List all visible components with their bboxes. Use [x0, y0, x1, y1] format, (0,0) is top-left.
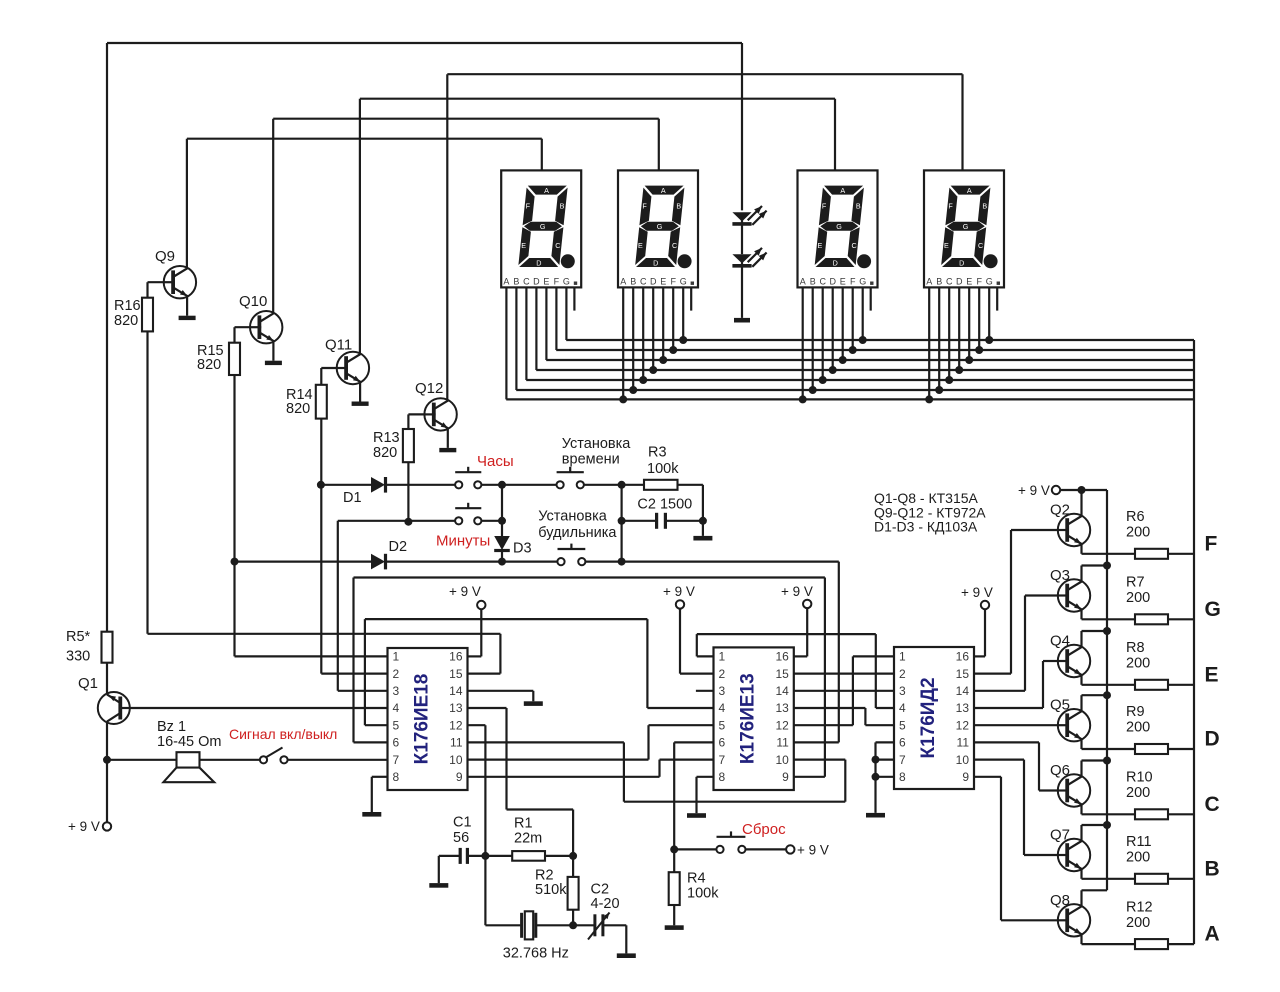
svg-text:D2: D2: [389, 539, 408, 555]
svg-text:+ 9 V: + 9 V: [781, 584, 813, 599]
svg-text:Bz 1: Bz 1: [157, 719, 186, 735]
svg-text:Q11: Q11: [325, 337, 352, 354]
svg-text:B: B: [810, 276, 816, 286]
svg-text:6: 6: [899, 736, 906, 750]
svg-text:10: 10: [449, 753, 463, 767]
svg-text:Q9: Q9: [155, 248, 175, 265]
svg-text:9: 9: [962, 770, 969, 784]
svg-text:22m: 22m: [514, 831, 542, 847]
svg-text:C: C: [640, 276, 647, 286]
svg-text:11: 11: [957, 736, 970, 750]
svg-text:3: 3: [393, 684, 400, 698]
svg-text:C: C: [672, 241, 677, 250]
svg-text:2: 2: [393, 667, 400, 681]
svg-text:Установка: Установка: [538, 509, 607, 525]
svg-text:A: A: [926, 276, 932, 286]
svg-text:D: D: [536, 258, 541, 267]
svg-text:D: D: [833, 258, 838, 267]
svg-text:G: G: [540, 222, 546, 231]
svg-text:R3: R3: [648, 445, 667, 461]
svg-text:56: 56: [453, 830, 469, 846]
svg-text:R11: R11: [1126, 834, 1152, 850]
svg-text:R6: R6: [1126, 509, 1145, 525]
svg-text:7: 7: [719, 753, 726, 767]
svg-text:+ 9 V: + 9 V: [797, 843, 829, 858]
svg-text:B: B: [560, 202, 565, 211]
svg-text:E: E: [638, 241, 643, 250]
svg-text:G: G: [836, 222, 842, 231]
svg-text:13: 13: [956, 701, 970, 715]
svg-text:10: 10: [775, 753, 789, 767]
svg-text:F: F: [976, 276, 982, 286]
svg-text:7: 7: [899, 753, 906, 767]
svg-text:15: 15: [449, 667, 463, 681]
svg-text:E: E: [660, 276, 666, 286]
svg-text:D: D: [650, 276, 657, 286]
svg-text:32.768 Hz: 32.768 Hz: [503, 946, 569, 962]
svg-text:G: G: [986, 276, 993, 286]
svg-text:5: 5: [899, 718, 906, 732]
svg-text:G: G: [680, 276, 687, 286]
svg-text:B: B: [513, 276, 519, 286]
svg-text:C: C: [946, 276, 953, 286]
svg-text:Установка: Установка: [562, 436, 631, 452]
svg-text:2: 2: [719, 667, 726, 681]
svg-text:A: A: [840, 186, 845, 195]
svg-text:К176ИЕ18: К176ИЕ18: [412, 674, 433, 765]
svg-text:G: G: [657, 222, 663, 231]
svg-text:9: 9: [456, 770, 463, 784]
svg-text:R4: R4: [687, 871, 706, 887]
svg-text:510k: 510k: [535, 882, 567, 898]
svg-text:1: 1: [719, 650, 726, 664]
svg-text:D: D: [533, 276, 540, 286]
svg-text:E: E: [966, 276, 972, 286]
svg-text:5: 5: [719, 718, 726, 732]
svg-text:100k: 100k: [647, 461, 679, 477]
svg-text:820: 820: [114, 313, 138, 329]
svg-text:C: C: [555, 241, 560, 250]
svg-text:330: 330: [66, 649, 90, 665]
svg-text:F: F: [1205, 532, 1218, 555]
svg-text:R9: R9: [1126, 704, 1145, 720]
svg-text:12: 12: [775, 718, 789, 732]
svg-text:Q10: Q10: [239, 293, 267, 310]
svg-text:A: A: [503, 276, 509, 286]
svg-text:Q4: Q4: [1050, 633, 1070, 650]
svg-text:C: C: [978, 241, 983, 250]
svg-text:E: E: [543, 276, 549, 286]
svg-text:1: 1: [393, 650, 400, 664]
svg-text:15: 15: [956, 667, 970, 681]
svg-text:A: A: [620, 276, 626, 286]
svg-text:F: F: [670, 276, 676, 286]
svg-text:R13: R13: [373, 430, 400, 446]
svg-text:E: E: [944, 241, 949, 250]
svg-text:8: 8: [393, 770, 400, 784]
svg-text:+ 9 V: + 9 V: [663, 584, 695, 599]
svg-text:времени: времени: [562, 452, 620, 468]
svg-text:F: F: [526, 202, 531, 211]
svg-text:3: 3: [719, 684, 726, 698]
svg-text:R12: R12: [1126, 899, 1153, 915]
svg-text:A: A: [661, 186, 666, 195]
svg-text:15: 15: [775, 667, 789, 681]
svg-text:5: 5: [393, 718, 400, 732]
svg-text:820: 820: [373, 445, 397, 461]
svg-text:R7: R7: [1126, 575, 1145, 591]
svg-text:C: C: [819, 276, 826, 286]
svg-text:E: E: [521, 241, 526, 250]
svg-text:Минуты: Минуты: [436, 533, 490, 550]
svg-text:R10: R10: [1126, 770, 1153, 786]
svg-text:D: D: [956, 276, 963, 286]
svg-text:G: G: [859, 276, 866, 286]
svg-text:3: 3: [899, 684, 906, 698]
svg-text:4: 4: [393, 701, 400, 715]
svg-text:13: 13: [449, 701, 463, 715]
svg-text:6: 6: [393, 736, 400, 750]
svg-text:К176ИЕ13: К176ИЕ13: [738, 673, 759, 764]
svg-text:4: 4: [899, 701, 906, 715]
svg-text:200: 200: [1126, 720, 1150, 736]
svg-text:8: 8: [719, 770, 726, 784]
svg-text:14: 14: [775, 684, 789, 698]
svg-text:12: 12: [449, 718, 463, 732]
svg-text:F: F: [850, 276, 856, 286]
svg-text:11: 11: [776, 736, 789, 750]
svg-text:820: 820: [286, 401, 310, 417]
svg-text:Q6: Q6: [1050, 762, 1070, 779]
svg-text:12: 12: [956, 718, 970, 732]
svg-text:D1: D1: [343, 490, 362, 506]
svg-text:Сброс: Сброс: [742, 821, 786, 838]
svg-text:Часы: Часы: [477, 453, 514, 470]
svg-text:E: E: [818, 241, 823, 250]
svg-text:F: F: [642, 202, 647, 211]
svg-text:D1-D3 - КД103А: D1-D3 - КД103А: [874, 519, 978, 535]
svg-text:R8: R8: [1126, 640, 1145, 656]
svg-text:11: 11: [450, 736, 463, 750]
svg-text:Q5: Q5: [1050, 697, 1070, 714]
svg-text:7: 7: [393, 753, 400, 767]
svg-text:4: 4: [719, 701, 726, 715]
svg-text:B: B: [856, 202, 861, 211]
svg-text:200: 200: [1126, 850, 1150, 866]
svg-text:1: 1: [899, 650, 906, 664]
svg-text:+ 9 V: + 9 V: [449, 584, 481, 599]
svg-text:F: F: [948, 202, 953, 211]
svg-text:B: B: [676, 202, 681, 211]
svg-text:6: 6: [719, 736, 726, 750]
svg-text:9: 9: [782, 770, 789, 784]
svg-text:10: 10: [956, 753, 970, 767]
svg-text:D: D: [829, 276, 836, 286]
svg-text:Q12: Q12: [415, 380, 443, 397]
svg-text:R1: R1: [514, 816, 533, 832]
svg-text:Q2: Q2: [1050, 502, 1070, 519]
svg-text:16: 16: [956, 650, 970, 664]
svg-text:2: 2: [899, 667, 906, 681]
svg-text:E: E: [840, 276, 846, 286]
svg-text:16: 16: [449, 650, 463, 664]
svg-text:+ 9 V: + 9 V: [1018, 483, 1050, 498]
svg-text:D: D: [959, 258, 964, 267]
svg-text:C2 1500: C2 1500: [637, 497, 692, 513]
svg-text:16: 16: [775, 650, 789, 664]
svg-text:+ 9 V: + 9 V: [961, 585, 993, 600]
svg-text:R5*: R5*: [66, 629, 91, 645]
svg-text:B: B: [936, 276, 942, 286]
svg-text:R16: R16: [114, 298, 141, 314]
svg-text:К176ИД2: К176ИД2: [918, 677, 939, 758]
svg-text:будильника: будильника: [538, 525, 617, 541]
svg-text:D: D: [1205, 728, 1220, 751]
svg-text:B: B: [1205, 857, 1220, 880]
svg-text:G: G: [1205, 598, 1221, 621]
svg-text:D3: D3: [513, 541, 532, 557]
svg-text:A: A: [967, 186, 972, 195]
svg-text:200: 200: [1126, 915, 1150, 931]
svg-text:G: G: [563, 276, 570, 286]
svg-text:14: 14: [956, 684, 970, 698]
svg-text:14: 14: [449, 684, 463, 698]
svg-text:B: B: [630, 276, 636, 286]
svg-text:C: C: [523, 276, 530, 286]
svg-text:200: 200: [1126, 525, 1150, 541]
svg-text:Q1: Q1: [78, 675, 98, 692]
svg-text:A: A: [1205, 923, 1220, 946]
svg-text:Q7: Q7: [1050, 827, 1070, 844]
svg-text:200: 200: [1126, 656, 1150, 672]
svg-text:100k: 100k: [687, 886, 719, 902]
svg-text:G: G: [963, 222, 969, 231]
svg-text:820: 820: [197, 357, 221, 373]
svg-text:Q3: Q3: [1050, 567, 1070, 584]
svg-text:C: C: [1205, 793, 1220, 816]
svg-text:200: 200: [1126, 590, 1150, 606]
svg-text:F: F: [554, 276, 560, 286]
svg-text:13: 13: [775, 701, 789, 715]
svg-text:E: E: [1205, 663, 1219, 686]
svg-text:Q8: Q8: [1050, 892, 1070, 909]
svg-text:C: C: [851, 241, 856, 250]
svg-text:A: A: [544, 186, 549, 195]
svg-text:C1: C1: [453, 815, 472, 831]
svg-text:+ 9 V: + 9 V: [68, 819, 100, 834]
svg-text:B: B: [982, 202, 987, 211]
svg-text:D: D: [653, 258, 658, 267]
svg-text:8: 8: [899, 770, 906, 784]
svg-text:200: 200: [1126, 785, 1150, 801]
svg-text:A: A: [800, 276, 806, 286]
svg-text:4-20: 4-20: [591, 896, 620, 912]
svg-text:16-45 Om: 16-45 Om: [157, 734, 221, 750]
svg-text:Сигнал вкл/выкл: Сигнал вкл/выкл: [229, 726, 337, 742]
svg-text:F: F: [822, 202, 827, 211]
